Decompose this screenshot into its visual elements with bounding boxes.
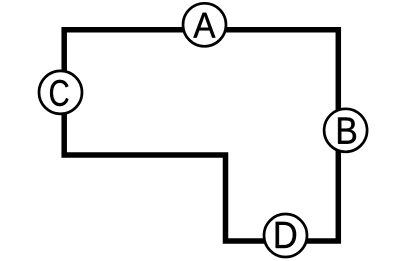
meter B — [324, 109, 367, 152]
circuit loop wire — [64, 30, 338, 241]
meter D — [264, 214, 307, 257]
meter C — [39, 71, 82, 114]
meter A — [183, 3, 226, 46]
